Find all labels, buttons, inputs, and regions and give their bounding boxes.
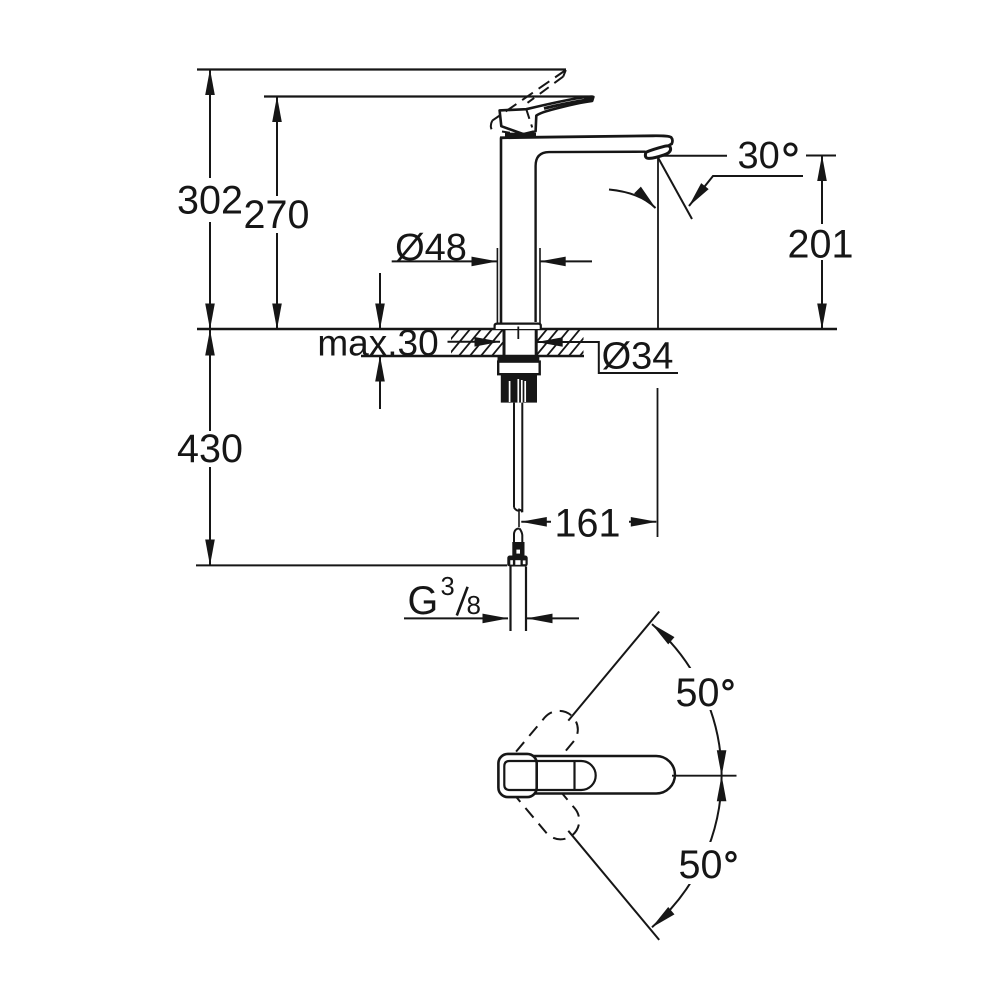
50 degree extension line upper (568, 612, 659, 721)
rotation arc lower (652, 776, 722, 928)
countertop bottom line (361, 355, 584, 357)
vertical reference from aerator to countertop (657, 158, 659, 330)
svg-text:max.30: max.30 (317, 323, 438, 364)
dashed lever base bottom (502, 132, 516, 134)
hose compression end notch (516, 550, 520, 554)
50 degree extension line lower (568, 831, 659, 940)
handle centreline (672, 775, 737, 777)
supply hose upper segment (514, 403, 522, 513)
degree sign of lower 50 (727, 852, 736, 861)
dimension 430 vertical line with arrows (209, 330, 211, 565)
faucet inner contour (536, 152, 646, 322)
degree sign of upper 50 (724, 680, 733, 689)
dimension 201 vertical line with arrows (821, 156, 823, 330)
second reference line (270 datum) (264, 95, 593, 97)
svg-text:270: 270 (244, 193, 310, 237)
svg-text:Ø34: Ø34 (602, 336, 674, 378)
faucet top deck and spout tip (500, 136, 672, 147)
dimension 270 vertical line with arrows (276, 97, 278, 330)
svg-text:Ø48: Ø48 (395, 227, 467, 269)
countertop hatching right (524, 328, 603, 357)
30 degree leader right / 201 top bar (806, 155, 836, 157)
countertop top line (197, 328, 837, 330)
dashed lever knuckle (527, 110, 533, 127)
lever tip (584, 96, 594, 102)
G3/8 dimension arrows (404, 617, 508, 619)
bottom reference line (430 datum) (196, 564, 507, 566)
svg-text:3: 3 (441, 573, 455, 601)
svg-text:30: 30 (738, 135, 780, 177)
rotation arc upper (652, 624, 722, 776)
Ø34 right arrow with leader (537, 342, 678, 373)
aerator at spout tip (645, 146, 670, 159)
shank centre tick (517, 327, 519, 340)
dimension 161 left arrow (521, 521, 551, 523)
top reference line (302 datum, ceiling of handle raised) (197, 68, 566, 70)
30 degree lower leader with arrow (689, 176, 803, 206)
hose compression end (512, 542, 524, 556)
svg-text:G: G (408, 579, 439, 623)
swivel arc arrow (609, 190, 656, 209)
max.30 upper arrow (379, 273, 381, 329)
dimension 161 right arrow (629, 521, 656, 523)
base flange on countertop (495, 324, 541, 329)
nut ribs (510, 379, 526, 403)
hose break centre tick (518, 509, 520, 528)
shank through countertop (504, 329, 536, 356)
dashed lever (raised position) top edge (492, 70, 566, 121)
label 50 degrees upper (674, 668, 746, 710)
30 degree slant line (658, 158, 692, 220)
dashed handle rotated down 50 (501, 754, 587, 847)
dimension Ø48 leader with arrow (392, 260, 497, 262)
Ø48 extension lines (497, 248, 540, 325)
svg-text:201: 201 (788, 223, 854, 267)
handle inner contour (504, 761, 595, 790)
svg-text:50: 50 (676, 671, 720, 715)
svg-text:430: 430 (177, 427, 243, 471)
dashed handle rotated up 50 (499, 703, 585, 796)
gasket under countertop (498, 357, 540, 362)
lever handle (solid, rest position) (500, 97, 594, 134)
dashed lever tip (563, 70, 566, 77)
lever base shadow line (505, 133, 536, 138)
faucet body left edge (500, 138, 503, 324)
G3/8 threaded tube (511, 567, 527, 632)
svg-text:302: 302 (177, 179, 243, 223)
handle grip end cap (498, 754, 536, 797)
Ø34 left arrow (448, 341, 501, 343)
svg-text:161: 161 (555, 502, 621, 546)
G3/8 hex nut (507, 556, 527, 567)
max.30 lower arrow (379, 356, 381, 409)
countertop hatching left (436, 328, 526, 357)
svg-text:50: 50 (679, 843, 723, 887)
supply hose lower segment (514, 528, 522, 542)
degree sign of 30 (785, 144, 796, 155)
30 degree leader left (663, 155, 727, 157)
handle top view outer outline (499, 756, 675, 794)
dashed lever bottom edge (528, 77, 564, 103)
locknut (498, 362, 540, 375)
ribbed mounting nut (501, 375, 537, 403)
handle divider line (573, 761, 575, 790)
label 50 degrees lower (675, 842, 747, 884)
vertical reference below spout (lower) (657, 388, 659, 537)
lever dark top band (544, 99, 591, 108)
svg-text:8: 8 (467, 590, 481, 620)
dashed lever base arc (491, 121, 494, 132)
dimension 302 vertical line with arrows (209, 70, 211, 330)
